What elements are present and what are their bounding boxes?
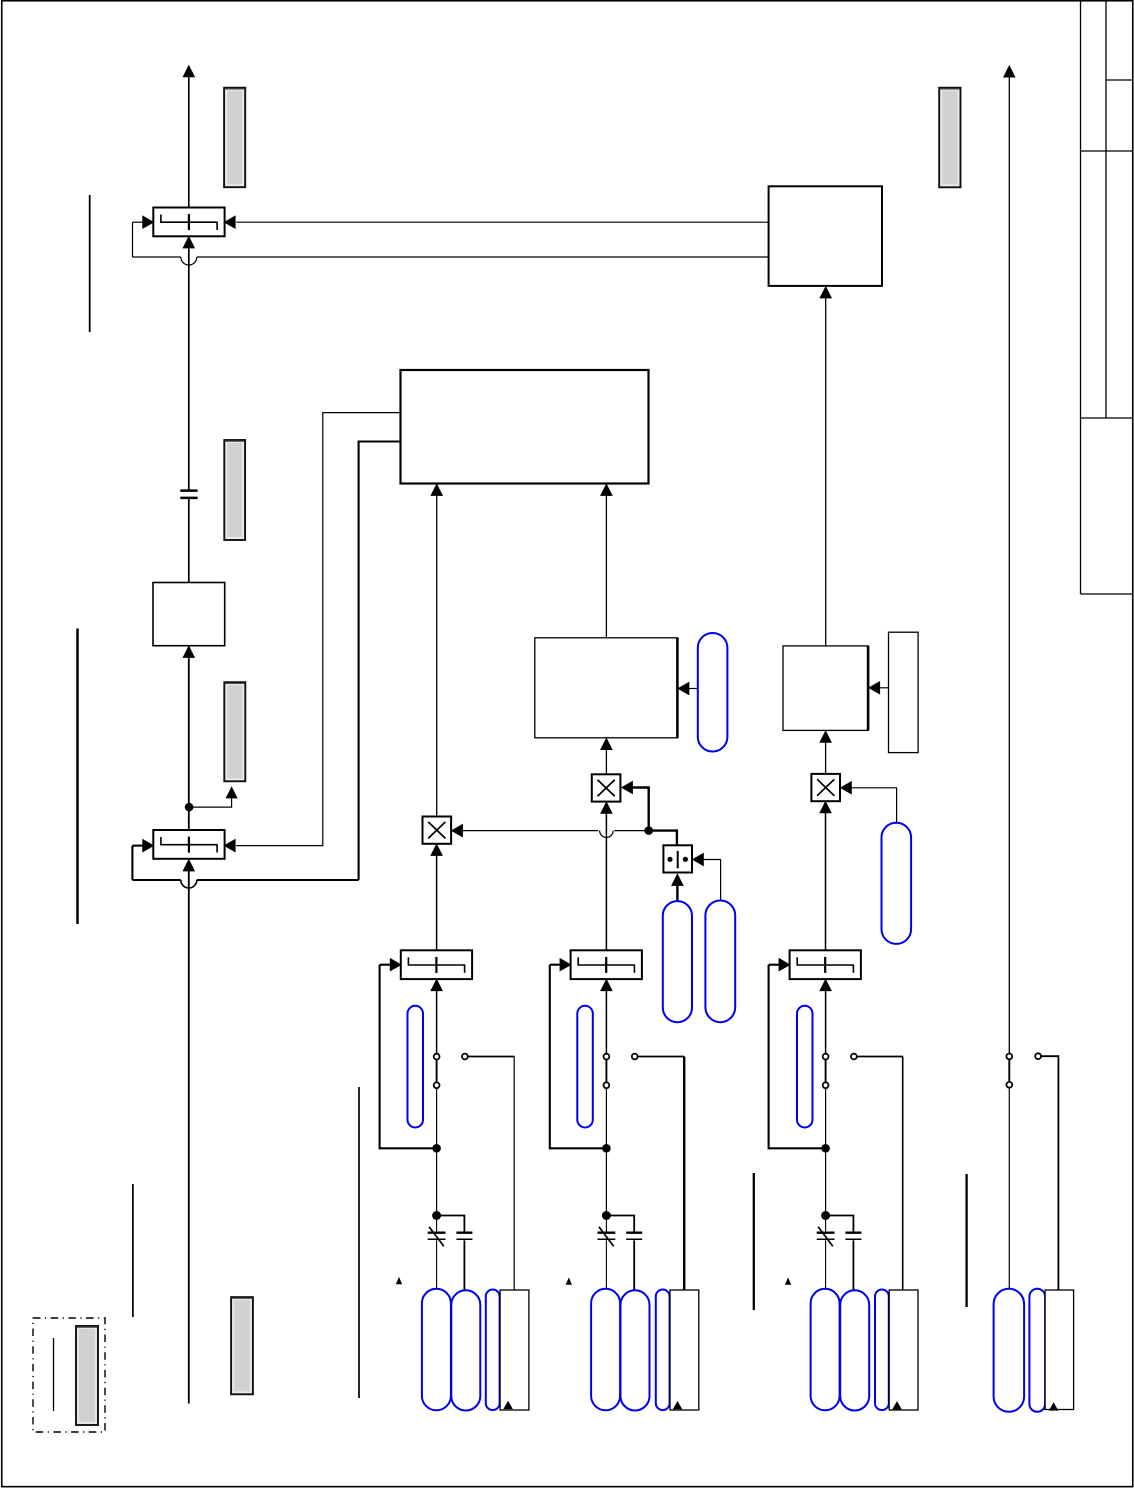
separator bar S3 [132,1184,134,1317]
wire relay U3 right input from block U5 [236,413,399,846]
variable capacitor C3a [825,1216,827,1232]
title block column line outer [1080,2,1082,595]
annotation box (dash-dot) [33,1318,105,1432]
tag T21b (rounded) [451,1290,480,1410]
node N5b junction [821,1211,830,1220]
switch SW1 alternate terminal [462,1054,468,1060]
wire capacitor C1b to tag [463,1240,465,1290]
wire switch SW4 alternate to port line [1041,1056,1058,1290]
node N3a junction [432,1144,441,1153]
wire tag T3 to divide D1 bottom input [676,885,678,901]
wire output arrow top of chain D [1008,77,1010,1054]
label bar L3 (gray) [224,682,245,781]
wire product P1 output to block U5 [436,495,438,816]
port block R11 [500,1290,529,1410]
node N1 junction [185,803,194,812]
relay U1 [153,208,224,237]
wire feedback from block U5 lower port [359,442,400,881]
line hop J1 [181,257,197,265]
line hop J3 [600,831,614,838]
wire node N1 to relay U3 [188,807,190,830]
separator bar S1 [89,195,91,332]
wire relay U13 output up [825,991,827,1054]
switch SW4 alternate terminal [1035,1053,1041,1059]
capacitor C1b [456,1231,472,1233]
wire relay U13 output to product P3 [825,813,827,950]
switch SW3 alternate terminal [851,1054,857,1060]
wire relay U12 left feedback input [550,964,561,966]
wire capacitor C3b to tag [852,1240,854,1290]
annotation inner line [53,1338,55,1411]
wire capacitor C1 to block U2 [188,499,190,582]
wire relay U12 output to product P2 [605,813,607,950]
separator bar S2 [76,629,79,925]
variable capacitor C1a [436,1216,438,1232]
variable capacitor C2a [605,1216,607,1232]
tag T1 (rounded) [698,633,728,752]
node N5a junction [821,1144,830,1153]
label bar L1 (gray) [224,88,245,188]
wire tag T4 to divide D1 right input [703,860,721,901]
wire relay U11 output up [436,991,438,1054]
wire divide D1 top to node N2 [649,831,677,847]
wire relay U3 bottom input [188,871,190,1404]
marker triangle M1 [397,1278,402,1284]
port block R12 [670,1290,699,1410]
port block R14 triangle [1050,1403,1058,1410]
relay U12 [571,950,642,979]
wire switch SW2 to node N4a [605,1089,607,1149]
wire relay U12 feedback loop [550,965,607,1149]
port block R13 triangle [893,1402,901,1409]
wire tag T1 to block U4 right input [689,688,698,690]
wire relay U1 right input from block U6 [236,221,768,223]
wire node N4b branch to capacitor C2b [606,1216,634,1232]
port block R1 [889,632,919,752]
tag T24b (rounded narrow) [1029,1289,1045,1412]
tag T2 (rounded) [882,823,912,944]
wire switch SW1 to node N3a [436,1089,438,1149]
tag T12 (rounded) [577,1006,593,1128]
wire node N3b branch to capacitor C1b [437,1216,465,1232]
tag T13 (rounded) [797,1006,813,1128]
wire capacitor C2b to tag [633,1240,635,1290]
label bar L2 (gray) [224,440,245,540]
node N4a junction [602,1144,611,1153]
wire switch SW4 to tag [1008,1088,1010,1289]
wire relay U3 feedback loop [131,846,133,880]
wire variable capacitor C1a to tag [436,1240,438,1288]
relay U3 [153,830,224,859]
capacitor C1 [180,489,197,492]
node N3b junction [432,1211,441,1220]
wire relay U1 left feedback input [133,221,144,223]
product P2 [592,774,621,801]
title block row line 1 [1106,79,1133,81]
wire relay U11 left feedback input [380,964,391,966]
wire relay U13 left feedback input [769,964,780,966]
wire block U4 bottom input from product P2 [605,749,607,774]
wire variable capacitor C2a to tag [605,1240,607,1288]
tag T24a (rounded) [994,1289,1025,1412]
wire switch SW3 to node N5a [825,1089,827,1149]
capacitor C2b [626,1231,642,1233]
capacitor C3b [845,1231,861,1233]
wire block U7 bottom input from product P3 [825,742,827,774]
wire relay U13 feedback loop [769,965,826,1149]
wire output arrow top of chain A [188,77,190,208]
wire relay U12 output up [605,991,607,1054]
tag T21a (rounded) [422,1289,451,1411]
title block row line 4 [1081,593,1133,595]
block U5 [401,370,649,484]
wire tag T2 to product P3 right input [851,788,896,823]
tag T23b (rounded) [840,1290,869,1410]
title block row line 2 [1081,150,1133,152]
port block R11 triangle [504,1402,512,1409]
tag T23a (rounded) [811,1289,840,1411]
relay U11 [401,950,472,979]
wire block U7 output to block U6 [825,297,827,646]
wire switch SW2 alternate to port line [638,1056,685,1058]
port block R12 triangle [674,1402,682,1409]
tag T4 (rounded) [705,901,735,1023]
line hop J2 [181,880,197,888]
relay U13 [790,950,861,979]
switch SW3 pole a [825,1059,827,1083]
switch SW2 pole a [605,1059,607,1083]
port block R13 [889,1290,918,1410]
wire block U4 output to block U5 [605,495,607,637]
node N2 junction [644,826,653,835]
wire relay U1 bottom input [188,248,190,490]
label bar L6 (gray) [939,88,960,188]
wire node N5b branch to capacitor C3b [826,1216,854,1232]
tag T3 (rounded) [663,901,692,1022]
wire divide D1 output to products [462,830,598,832]
tag T21c (rounded narrow) [486,1290,500,1411]
tag T22c (rounded narrow) [656,1290,670,1411]
wire port block R1 to block U7 right input [879,687,888,689]
wire relay U3 left feedback input [132,845,143,847]
label bar L4 (gray) [76,1326,98,1425]
node N4b junction [602,1211,611,1220]
block U6 [769,186,882,286]
wire relay U11 output to product P1 [436,856,438,951]
marker triangle M3 [786,1279,791,1285]
wire variable capacitor C3a to tag [825,1240,827,1288]
wire relay U11 feedback loop [380,965,437,1149]
tag T22a (rounded) [591,1289,620,1411]
wire node N3a to node N3b [436,1148,438,1215]
separator bar S6 [965,1174,967,1307]
title block row line 3 [1081,417,1133,419]
wire tap to label bar L3 [189,799,232,808]
tag T23c (rounded narrow) [875,1290,889,1411]
port block R14 [1045,1290,1074,1410]
tag T22b (rounded) [621,1290,650,1410]
wire relay U1 feedback loop [132,222,134,257]
wire switch SW3 alternate to port line [857,1056,903,1058]
divide D1 [663,845,692,872]
label bar L5 (gray) [231,1297,253,1394]
separator bar S5 [753,1173,755,1310]
separator bar S4 [358,1087,360,1398]
wire switch SW1 alternate to port line [468,1056,514,1058]
product P1 [423,817,452,844]
wire node N4a to node N4b [605,1148,607,1215]
switch SW1 pole a [436,1059,438,1083]
block U4 [535,638,678,738]
wire block U2 bottom input [188,658,190,808]
switch SW4 pole [1008,1059,1010,1082]
marker triangle M2 [566,1279,571,1285]
block U7 [783,646,868,731]
product P3 [811,774,840,801]
title block column line inner [1105,2,1107,419]
block U2 [153,583,225,646]
wire node N5a to node N5b [825,1148,827,1215]
switch SW2 alternate terminal [632,1054,638,1060]
tag T11 (rounded) [408,1006,424,1128]
wire node N2 to product P2 right input [632,788,649,831]
